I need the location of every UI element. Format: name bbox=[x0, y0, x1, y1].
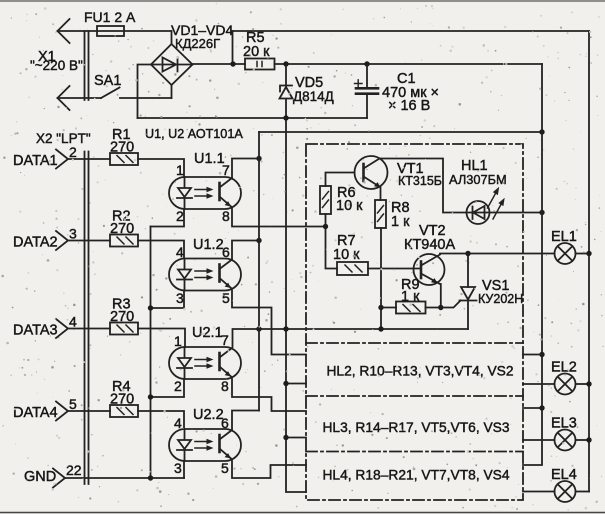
wire riser to top rail bbox=[232, 31, 234, 64]
wire X1 top to bridge bbox=[58, 30, 172, 32]
node rail B right bbox=[539, 129, 544, 134]
svg-text:HL2, R10–R13, VT3,VT4, VS2: HL2, R10–R13, VT3,VT4, VS2 bbox=[326, 364, 513, 379]
wire U1.2 pin3 to cathode bus bbox=[151, 291, 185, 309]
svg-text:АЛ307БМ: АЛ307БМ bbox=[449, 172, 507, 187]
svg-text:7: 7 bbox=[221, 332, 229, 348]
optocoupler U1.1 LED bbox=[177, 177, 192, 209]
wire EL4 to rail bbox=[576, 491, 590, 493]
wire C1 bottom stem bbox=[366, 95, 368, 118]
wire U2.1 pin2 to cathode bus bbox=[151, 379, 185, 397]
zener diode VD5 bbox=[280, 86, 293, 99]
svg-text:КТ315Б: КТ315Б bbox=[398, 174, 442, 188]
svg-text:EL4: EL4 bbox=[551, 467, 577, 483]
svg-text:U1.2: U1.2 bbox=[193, 237, 224, 253]
connector X2 pin 22 chevron bbox=[53, 469, 65, 488]
node cathode bus U1 bbox=[148, 305, 153, 310]
node EL1 rail bbox=[586, 251, 591, 256]
node cathode bus U2 bbox=[148, 394, 153, 399]
node R9 emitter gate bbox=[438, 305, 443, 310]
optocoupler U1.2 body bbox=[169, 259, 241, 291]
wire R1 to U1.1 pin1 bbox=[138, 159, 184, 177]
svg-text:2: 2 bbox=[69, 144, 77, 160]
svg-text:HL3, R14–R17, VT5,VT6, VS3: HL3, R14–R17, VT5,VT6, VS3 bbox=[322, 420, 509, 435]
wire VT1 emitter to R8 bbox=[380, 188, 382, 201]
svg-text:270: 270 bbox=[110, 392, 134, 408]
wire minus to box HL2 bbox=[286, 383, 306, 385]
wire X1 bottom to SA1 bbox=[58, 97, 102, 99]
wire bridge minus output bbox=[138, 65, 152, 119]
svg-text:6: 6 bbox=[222, 244, 230, 260]
transistor VT1 bbox=[355, 156, 388, 189]
wire box HL3 output bbox=[523, 407, 542, 409]
wire bridge plus output rail bbox=[193, 63, 246, 65]
connector X2 pin 2 chevron bbox=[56, 150, 68, 169]
wire bridge bottom corner riser bbox=[171, 85, 173, 98]
lamp EL3 bbox=[555, 430, 576, 451]
wire R6 bottom to R7 bbox=[326, 214, 338, 269]
wire U2.2 pin5 to box HL4 bbox=[232, 461, 306, 478]
wire VS1 cathode stem bbox=[467, 301, 469, 330]
node U1.1 pin7 junction bbox=[256, 156, 261, 161]
wire U2.2 pin3 to GND wire bbox=[183, 461, 185, 478]
optocoupler U2.2 body bbox=[169, 429, 241, 461]
resistor R8 power marks bbox=[378, 206, 384, 222]
wire R9 left bbox=[381, 307, 396, 309]
node minus box HL2 bbox=[283, 381, 288, 386]
optocoupler U1.1 phototransistor bbox=[218, 183, 221, 200]
connector X1 double line bbox=[85, 31, 89, 100]
svg-text:5: 5 bbox=[69, 396, 77, 412]
wire common to U2.2 pin6 bbox=[232, 411, 259, 430]
resistor R4 power marks bbox=[117, 408, 133, 415]
resistor R3 bbox=[110, 323, 138, 335]
svg-text:270: 270 bbox=[110, 221, 134, 237]
capacitor C1 plus sign bbox=[355, 80, 363, 87]
wire EL1 to rail bbox=[576, 253, 590, 255]
svg-text:8: 8 bbox=[221, 378, 229, 394]
connector X2 pin 5 chevron bbox=[56, 402, 68, 421]
resistor R6 power marks bbox=[323, 192, 329, 208]
optocoupler U1.2 light arrows bbox=[195, 271, 209, 278]
svg-text:4: 4 bbox=[174, 415, 182, 431]
wire VS1 gate bbox=[441, 301, 461, 308]
node HL1 lamp rail bbox=[539, 210, 544, 215]
wire R3 to U2.1 pin1 bbox=[138, 329, 185, 348]
wire EL2 to rail bbox=[576, 383, 590, 385]
svg-text:2: 2 bbox=[174, 378, 182, 394]
resistor R5 power marks bbox=[257, 62, 262, 67]
wire R7 to VT2 base bbox=[368, 268, 421, 270]
optocoupler U2.2 phototransistor bbox=[218, 435, 221, 452]
wire VS1 anode stem bbox=[467, 254, 469, 288]
wire R9 right bbox=[426, 307, 441, 309]
svg-text:U2.1: U2.1 bbox=[192, 325, 223, 341]
wire VT2 collector to EL1 bbox=[440, 253, 555, 255]
wire GND bbox=[65, 477, 184, 479]
svg-text:4: 4 bbox=[176, 244, 184, 260]
svg-text:8: 8 bbox=[222, 208, 230, 224]
svg-text:7: 7 bbox=[222, 162, 230, 178]
svg-text:1: 1 bbox=[176, 162, 184, 178]
wire right lamp rail bbox=[588, 31, 590, 492]
connector X1 arrow bottom bbox=[58, 86, 70, 110]
node VD5 top bbox=[283, 61, 288, 66]
connector X1 arrow top bbox=[58, 19, 70, 43]
svg-text:DATA2: DATA2 bbox=[13, 235, 58, 251]
svg-text:"~220 В": "~220 В" bbox=[30, 58, 83, 73]
wire R4 to U2.2 pin4 bbox=[138, 411, 184, 429]
wire U1.2 pin5 to box HL2 bbox=[232, 291, 306, 355]
node return at common rail bbox=[256, 326, 261, 331]
connector X2 pin 4 chevron bbox=[56, 319, 68, 338]
wire DATA3 to R3 bbox=[68, 328, 110, 330]
node EL3 rail bbox=[586, 437, 591, 442]
svg-text:5: 5 bbox=[222, 290, 230, 306]
wire R5 to VD5 node bbox=[275, 63, 543, 65]
optocoupler U1.1 emitter arrow bbox=[225, 201, 231, 206]
connector X2 double line bbox=[85, 152, 89, 485]
svg-text:270: 270 bbox=[110, 309, 134, 325]
svg-text:FU1 2 А: FU1 2 А bbox=[84, 9, 136, 25]
svg-text:270: 270 bbox=[110, 140, 134, 156]
resistor R3 power marks bbox=[117, 325, 133, 332]
svg-text:КД226Г: КД226Г bbox=[175, 36, 220, 51]
node C1 top bbox=[364, 61, 369, 66]
lamp EL1 bbox=[555, 243, 576, 264]
fuse FU1 bbox=[97, 26, 124, 36]
wire HL1 to lamp rail bbox=[490, 212, 543, 214]
node lamp feed HL2 bbox=[539, 352, 544, 357]
wire R8 bottom to return bbox=[380, 228, 382, 329]
transistor VT1 emitter arrow bbox=[374, 182, 381, 187]
optocoupler U2.2 light arrows bbox=[195, 442, 209, 449]
wire common rail vertical bbox=[258, 132, 260, 411]
optocoupler U2.1 LED bbox=[177, 347, 192, 379]
svg-text:EL3: EL3 bbox=[551, 416, 577, 432]
bridge rectifier VD1-VD4 diamond bbox=[151, 44, 193, 85]
wire DATA1 to R1 bbox=[68, 158, 110, 160]
node VS1 anode EL1 bbox=[465, 251, 470, 256]
wire U1.1 pin2 to cathode bus bbox=[151, 209, 185, 227]
svg-text:DATA4: DATA4 bbox=[13, 405, 58, 421]
svg-text:× 16 В: × 16 В bbox=[388, 98, 430, 114]
node R8 R9 junction bbox=[378, 305, 383, 310]
channel module enclosure dash-dot frame bbox=[306, 144, 523, 500]
svg-text:20 к: 20 к bbox=[243, 44, 270, 60]
wire EL3 to rail bbox=[576, 439, 590, 441]
optocoupler U1.2 phototransistor bbox=[218, 265, 221, 282]
optocoupler U2.2 LED bbox=[177, 429, 192, 461]
svg-text:X2 "LPT": X2 "LPT" bbox=[36, 131, 91, 146]
svg-text:GND: GND bbox=[24, 469, 56, 485]
svg-text:3: 3 bbox=[174, 460, 182, 476]
scan border top bbox=[0, 0, 605, 2]
wire R6 top to VT1 base bbox=[326, 173, 355, 187]
wire R2 to U1.2 pin4 bbox=[138, 241, 184, 259]
wire minus rail A bbox=[138, 117, 368, 119]
svg-text:1 к: 1 к bbox=[391, 214, 410, 230]
optocoupler U1.2 LED bbox=[177, 259, 192, 291]
wire DATA2 to R2 bbox=[68, 240, 110, 242]
node return at minus line bbox=[283, 326, 288, 331]
node bridge plus junction bbox=[230, 61, 235, 66]
switch SA1 lever bbox=[101, 88, 120, 99]
resistor R2 bbox=[110, 235, 138, 247]
transistor VT2 bbox=[414, 254, 445, 285]
wire U1.2 pin6 to common bbox=[232, 241, 259, 259]
capacitor C1 plates bbox=[356, 88, 378, 93]
svg-text:10 к: 10 к bbox=[336, 198, 363, 214]
wire box HL3 to EL3 bbox=[523, 439, 555, 441]
optocoupler U2.1 phototransistor bbox=[218, 353, 221, 370]
resistor R9 power marks bbox=[403, 305, 420, 312]
svg-text:EL2: EL2 bbox=[551, 360, 577, 376]
thyristor VS1 bbox=[460, 287, 477, 301]
resistor R1 power marks bbox=[117, 156, 133, 163]
node cathode bus GND bbox=[148, 475, 153, 480]
wire top rail bbox=[233, 30, 590, 32]
svg-text:10 к: 10 к bbox=[333, 247, 360, 263]
node R6 bottom pin8 bbox=[323, 224, 328, 229]
wire minus to box HL3 bbox=[286, 437, 306, 439]
wire box HL2 output bbox=[523, 354, 542, 356]
resistor R6 bbox=[320, 186, 331, 214]
svg-text:6: 6 bbox=[221, 415, 229, 431]
svg-text:EL1: EL1 bbox=[551, 229, 577, 245]
svg-text:5: 5 bbox=[221, 460, 229, 476]
resistor R2 power marks bbox=[117, 237, 133, 244]
svg-text:4: 4 bbox=[69, 314, 77, 330]
svg-text:2: 2 bbox=[176, 208, 184, 224]
node lamp feed HL3 bbox=[539, 405, 544, 410]
wire bridge top corner riser bbox=[171, 31, 173, 44]
optocoupler U1.1 body bbox=[169, 177, 241, 209]
resistor R5 bbox=[245, 59, 275, 70]
svg-text:3: 3 bbox=[69, 226, 77, 242]
resistor R1 bbox=[110, 153, 138, 165]
scan border bottom bbox=[0, 512, 605, 514]
wire SA1 to bridge bottom bbox=[120, 97, 172, 99]
svg-text:22: 22 bbox=[66, 462, 82, 478]
optocoupler U2.1 body bbox=[169, 347, 241, 379]
divider box HL3 top bbox=[306, 395, 523, 397]
lamp EL2 bbox=[555, 374, 576, 395]
wire VT1 collector to HL1 bbox=[380, 159, 467, 213]
optocoupler U2.1 light arrows bbox=[195, 360, 209, 367]
svg-text:КУ202Н: КУ202Н bbox=[478, 292, 523, 306]
svg-text:U2.2: U2.2 bbox=[193, 407, 224, 423]
svg-text:Д814Д: Д814Д bbox=[293, 89, 334, 104]
wire C1 top stem bbox=[366, 64, 368, 87]
divider box HL2 top bbox=[306, 342, 523, 344]
node U1.2 pin6 junction bbox=[256, 238, 261, 243]
resistor R9 bbox=[396, 302, 426, 314]
LED HL1 light arrows bbox=[488, 191, 503, 219]
connector X2 pin 3 chevron bbox=[56, 231, 68, 250]
svg-text:U1.1: U1.1 bbox=[194, 151, 225, 167]
svg-text:КТ940А: КТ940А bbox=[404, 237, 455, 253]
resistor R4 bbox=[110, 405, 138, 417]
wire U1.1 pin8 to R6 bbox=[232, 209, 326, 227]
wire box HL2 to EL2 bbox=[523, 383, 555, 385]
optocoupler U2.1 emitter arrow bbox=[225, 371, 231, 376]
svg-text:1: 1 bbox=[174, 333, 182, 349]
divider box HL4 top bbox=[306, 451, 523, 453]
LED HL1 bbox=[467, 201, 490, 224]
optocoupler U1.2 emitter arrow bbox=[225, 283, 231, 288]
wire common rail B bbox=[259, 131, 542, 133]
svg-text:U1, U2 АОТ101А: U1, U2 АОТ101А bbox=[145, 127, 243, 141]
resistor R8 bbox=[375, 200, 386, 228]
transistor VT2 emitter arrow bbox=[431, 278, 438, 283]
wire LED cathode bus bbox=[150, 227, 152, 479]
svg-text:3: 3 bbox=[176, 290, 184, 306]
wire box HL4 to EL4 bbox=[523, 491, 555, 493]
bridge diode symbol bbox=[151, 58, 193, 72]
wire VD5 stem and minus line down to HL4 box bbox=[286, 64, 306, 492]
wire VT2 emitter down bbox=[440, 284, 442, 308]
resistor R7 power marks bbox=[345, 265, 362, 272]
wire lamp feed vertical bbox=[523, 64, 542, 465]
node R8 return junction bbox=[378, 326, 383, 331]
svg-text:1 к: 1 к bbox=[401, 289, 420, 305]
optocoupler U1.1 light arrows bbox=[195, 190, 209, 197]
node minus box HL3 bbox=[283, 435, 288, 440]
wire U1.1 pin7 to common bbox=[232, 159, 259, 178]
svg-text:HL4, R18–R21, VT7,VT8, VS4: HL4, R18–R21, VT7,VT8, VS4 bbox=[322, 468, 509, 483]
node EL2 rail bbox=[586, 381, 591, 386]
lamp EL4 bbox=[555, 481, 576, 502]
resistor R7 bbox=[337, 262, 368, 275]
optocoupler U2.2 emitter arrow bbox=[225, 453, 231, 458]
wire DATA4 to R4 bbox=[68, 410, 110, 412]
wire U2.1 pin7 thyristor return bbox=[233, 329, 469, 347]
node VD5 bottom bbox=[283, 115, 288, 120]
wire U2.1 pin8 down bbox=[232, 379, 306, 411]
